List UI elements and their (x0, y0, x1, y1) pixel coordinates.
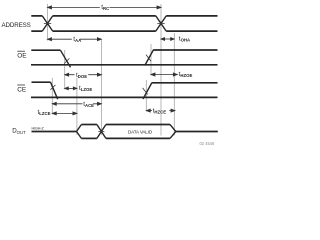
waveforms (31, 16, 218, 138)
arrow tACE (52, 103, 101, 105)
node ADDRESS left crossover (42, 16, 52, 31)
node CE-fall vertical (51, 78, 53, 115)
node data-invalid vertical (173, 33, 175, 136)
arrow tHZOE (151, 74, 177, 76)
svg-text:02 4546: 02 4546 (200, 141, 216, 146)
node ADDRESS right X tick (157, 23, 164, 25)
svg-text:tDOE: tDOE (76, 72, 87, 79)
svg-text:tRC: tRC (101, 4, 109, 11)
node bus-lowZ vertical (76, 78, 78, 135)
svg-text:tACE: tACE (83, 101, 94, 108)
wire OE low rail (31, 64, 218, 66)
arrow tDOE (65, 74, 102, 76)
arrow tLZCE (52, 112, 77, 114)
wire OE high right (153, 49, 217, 51)
wire DOUT high-Z line (32, 131, 77, 133)
wire CE high left (32, 81, 51, 83)
svg-text:HIGH-Z: HIGH-Z (32, 127, 45, 131)
node ADDRESS left X tick (44, 23, 51, 25)
arrow tAA (48, 38, 102, 40)
arrow tLZOE (65, 87, 77, 89)
node address-change-left vertical (47, 4, 49, 41)
svg-text:OE: OE (17, 53, 26, 60)
transition tick marks (44, 24, 165, 132)
svg-text:tAA: tAA (73, 36, 81, 43)
wire DOUT invalid bottom rail (81, 137, 97, 139)
svg-text:ADDRESS: ADDRESS (2, 22, 31, 29)
arrow tHZCE (146, 110, 175, 112)
wire OE rising edge (145, 50, 154, 66)
node CE fall tick (50, 85, 55, 90)
node OE rise tick (146, 55, 151, 62)
node OE-rise vertical (150, 44, 152, 76)
svg-text:tOHA: tOHA (179, 36, 190, 43)
svg-text:tHZOE: tHZOE (179, 71, 193, 78)
svg-text:CE: CE (17, 86, 26, 93)
wire DOUT high-Z right (176, 131, 218, 133)
node DOUT X tick (98, 131, 104, 133)
node CE rise tick (143, 88, 148, 95)
svg-text:DATA VALID: DATA VALID (128, 130, 153, 135)
wire CE rising edge (143, 83, 152, 99)
svg-text:tHZCE: tHZCE (153, 108, 167, 115)
wire DOUT valid top rail (106, 124, 170, 126)
arrow tRC (48, 6, 162, 8)
node data-valid vertical (100, 40, 102, 135)
wire OE falling edge (61, 50, 71, 67)
wire ADDRESS top rail (31, 15, 217, 17)
node ADDRESS right crossover (156, 16, 166, 31)
node OE fall tick (64, 58, 69, 63)
svg-text:tLZCE: tLZCE (38, 109, 51, 116)
wire CE low rail (31, 96, 218, 98)
node reference verticals (grey) (48, 4, 175, 136)
wire CE high right (152, 82, 218, 84)
svg-text:tLZOE: tLZOE (79, 85, 92, 92)
wire DOUT valid bottom rail (106, 137, 170, 139)
wire ADDRESS bottom rail (31, 30, 217, 32)
node DOUT bus open (77, 125, 82, 139)
wire CE falling edge (51, 82, 58, 99)
arrow tOHA (161, 38, 174, 40)
svg-text:DOUT: DOUT (12, 128, 26, 135)
node DOUT bus close (170, 125, 176, 139)
node address-change-right vertical (160, 4, 162, 136)
dimension arrows (48, 6, 178, 115)
node CE-rise vertical (145, 80, 147, 112)
wire DOUT invalid top rail (81, 124, 97, 126)
node DOUT crossover (97, 125, 106, 139)
node OE-fall vertical (64, 50, 66, 90)
wire OE high left (31, 49, 60, 51)
